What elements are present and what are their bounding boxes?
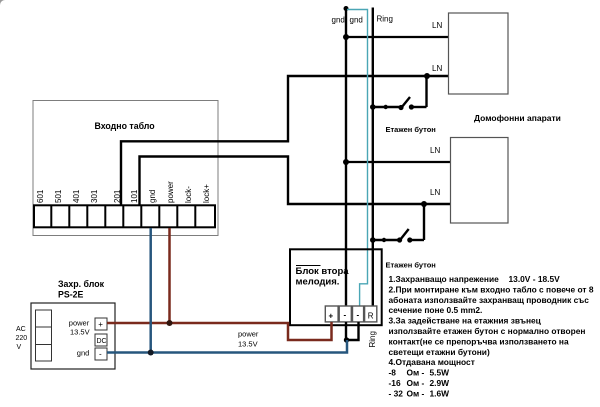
junction on gnd riser at intercom 2 LN1 wire — [343, 159, 349, 165]
svg-text:контакт(не се препоръчва изпол: контакт(не се препоръчва използването на — [389, 336, 569, 346]
Ring riser wire — [372, 8, 374, 307]
junction on call wire for floor button 2 — [421, 201, 427, 207]
svg-text:LN: LN — [432, 21, 442, 30]
notes text block — [389, 274, 594, 398]
svg-text:използвайте етажен бутон с нор: използвайте етажен бутон с нормално отво… — [389, 326, 586, 336]
melody terminal R — [365, 306, 377, 322]
svg-text:gnd: gnd — [350, 16, 363, 25]
svg-text:501: 501 — [54, 189, 63, 203]
svg-text:DC: DC — [97, 338, 107, 345]
switch 2 contact dots — [370, 237, 376, 243]
svg-text:lock-: lock- — [184, 186, 193, 203]
teal gnd wire to melody block — [347, 10, 368, 307]
melody terminal - (1) — [339, 306, 351, 322]
svg-text:Домофонни апарати: Домофонни апарати — [474, 113, 561, 123]
svg-text:Етажен бутон: Етажен бутон — [386, 125, 436, 134]
junction dot on blue wire — [148, 350, 154, 356]
svg-text:AC: AC — [16, 326, 26, 333]
svg-text:Етажен бутон: Етажен бутон — [386, 261, 436, 270]
svg-text:R: R — [368, 312, 374, 321]
svg-text:4.Отдавана мощност: 4.Отдавана мощност — [389, 357, 475, 367]
AC terminal block inside PS — [36, 310, 52, 361]
red riser from panel power terminal — [168, 228, 171, 323]
melody terminal + — [325, 306, 338, 322]
svg-text:gnd: gnd — [148, 190, 157, 203]
svg-text:-: - — [99, 350, 102, 359]
svg-text:601: 601 — [36, 189, 45, 203]
svg-text:-16Ом -2.9W: -16Ом -2.9W — [389, 378, 450, 388]
svg-text:Блок втора: Блок втора — [296, 266, 350, 277]
svg-text:3.За задействане на етажния зв: 3.За задействане на етажния звънец — [389, 316, 542, 326]
svg-text:301: 301 — [90, 189, 99, 203]
junction on call wire for floor button 1 — [424, 73, 430, 79]
svg-text:LN: LN — [430, 188, 440, 197]
overline artifact above title — [296, 265, 321, 267]
wire: gnd riser to intercom 1 LN1 — [346, 36, 449, 38]
svg-text:LN: LN — [430, 146, 440, 155]
entrance panel box (Входно табло) — [33, 101, 218, 236]
wire: terminal 101 to intercom 2 call line — [140, 157, 451, 206]
blue riser from panel gnd terminal — [149, 228, 152, 353]
svg-text:мелодия.: мелодия. — [296, 277, 340, 288]
jumper wire: melody minus1 to minus2 — [346, 322, 359, 340]
PS terminal - — [95, 348, 107, 360]
red power wire: PS+ to melody + — [107, 322, 332, 340]
svg-text:-: - — [357, 311, 360, 320]
corner smudge — [0, 0, 5, 5]
svg-text:220: 220 — [16, 335, 28, 342]
svg-text:- 32Ом -1.6W: - 32Ом -1.6W — [389, 388, 450, 398]
svg-text:Входно табло: Входно табло — [95, 121, 156, 131]
svg-text:абоната използвайте захранващ: абоната използвайте захранващ проводник … — [389, 295, 590, 305]
svg-text:power: power — [166, 181, 175, 203]
svg-text:Захр. блок: Захр. блок — [58, 279, 105, 289]
terminal strip of entrance panel — [34, 205, 215, 227]
svg-text:сечение поне 0.5 mm2.: сечение поне 0.5 mm2. — [389, 305, 483, 315]
svg-text:+: + — [98, 320, 103, 329]
svg-text:LN: LN — [432, 64, 442, 73]
floor button 2 (switch) — [373, 204, 424, 240]
junction on gnd riser at LN1 wire — [343, 34, 349, 40]
svg-text:101: 101 — [130, 189, 139, 203]
svg-text:13.5V: 13.5V — [238, 340, 258, 349]
blue gnd wire: PS- to melody minus — [107, 340, 347, 353]
svg-text:-: - — [344, 311, 347, 320]
wire: terminal 201 to intercom 1 call line — [121, 76, 449, 205]
second melody block box — [290, 249, 382, 325]
svg-text:Ring: Ring — [377, 15, 393, 24]
svg-text:PS-2E: PS-2E — [58, 290, 84, 300]
svg-text:401: 401 — [72, 189, 81, 203]
svg-text:Ring: Ring — [368, 331, 377, 347]
svg-text:1.Захранващо напрежение13.0V -: 1.Захранващо напрежение13.0V - 18.5V — [389, 274, 561, 284]
floor button 1 (switch) — [373, 76, 427, 108]
svg-text:+: + — [329, 312, 334, 321]
svg-text:power: power — [238, 330, 259, 339]
svg-text:13.5V: 13.5V — [70, 328, 90, 337]
svg-text:gnd: gnd — [77, 349, 90, 358]
PS terminal DC — [95, 334, 107, 346]
melody terminal - (2) — [353, 306, 364, 322]
gnd riser wire — [345, 9, 347, 307]
wire: gnd riser to intercom 2 LN1 — [346, 161, 451, 163]
svg-text:V: V — [17, 344, 22, 351]
junction dot minus net — [344, 337, 349, 342]
switch 1 contact dots — [370, 104, 376, 110]
svg-text:2.При монтиране към входно таб: 2.При монтиране към входно табло с повеч… — [389, 284, 594, 294]
intercom apparatus 2 — [451, 138, 509, 224]
junction: top of gnd riser — [344, 6, 349, 11]
svg-text:power: power — [69, 319, 90, 328]
junction dot on red wire — [167, 320, 173, 326]
intercom apparatus 1 — [449, 13, 509, 94]
svg-text:светещи етажни бутони): светещи етажни бутони) — [389, 347, 490, 357]
svg-text:lock+: lock+ — [202, 184, 211, 203]
svg-text:gnd: gnd — [332, 16, 345, 25]
PS terminal + — [95, 318, 107, 330]
power supply box PS-2E — [31, 303, 115, 369]
